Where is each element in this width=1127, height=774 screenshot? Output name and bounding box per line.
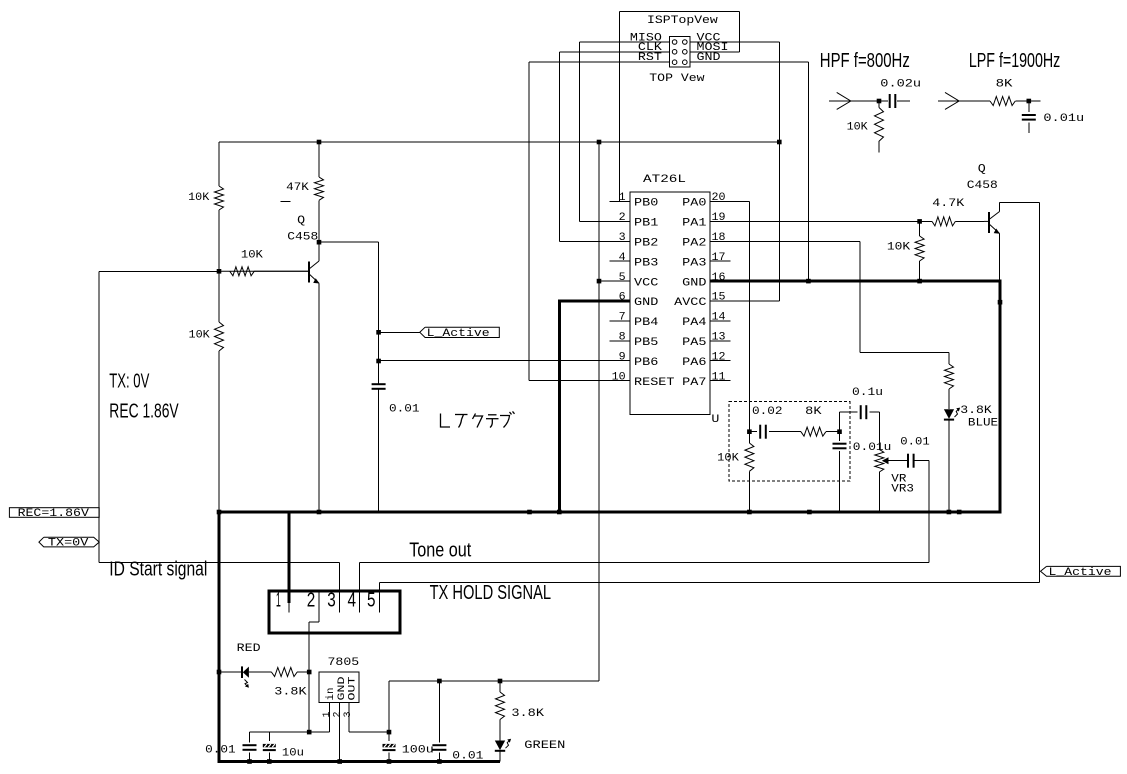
- wire VCC pin5 stub: [599, 280, 630, 282]
- VR3 wiper arrow: [882, 457, 889, 464]
- svg-text:OUT: OUT: [348, 677, 359, 701]
- resistor 10K mid-left: [215, 322, 224, 351]
- svg-text:GND: GND: [337, 677, 348, 701]
- net tag REC=1.86V: [9, 508, 99, 520]
- wire 7805 pin1 lead: [329, 703, 331, 733]
- wire connector pin2 stub and bend to 7805 input node: [318, 591, 320, 622]
- wire GND thick pin16 line: [710, 280, 1000, 283]
- svg-text:Q: Q: [297, 215, 305, 227]
- pin 8 (PB5): [609, 340, 629, 342]
- svg-text:HPF f=800Hz: HPF f=800Hz: [820, 50, 910, 72]
- svg-text:L_Active: L_Active: [1049, 567, 1112, 579]
- resistor 10K base (horizontal): [230, 267, 254, 276]
- wire BLUE led branch x=949: [948, 352, 950, 364]
- net tag TX=0V: [39, 537, 99, 549]
- wire 47K bottom tick: [280, 201, 290, 203]
- svg-text:GND: GND: [634, 297, 659, 309]
- svg-text:0.02: 0.02: [752, 406, 783, 418]
- svg-text:TX HOLD SIGNAL: TX HOLD SIGNAL: [430, 582, 552, 604]
- connector CN1 5-pin box: [269, 591, 400, 633]
- dashed box active filter: [729, 402, 850, 481]
- svg-text:4: 4: [348, 590, 357, 612]
- svg-text:PB0: PB0: [634, 198, 658, 210]
- svg-text:RED: RED: [237, 643, 261, 655]
- svg-text:RST: RST: [638, 52, 662, 64]
- wire RED led node from GND rail: [219, 671, 241, 673]
- svg-text:0.01: 0.01: [389, 403, 420, 415]
- svg-text:10K: 10K: [847, 122, 869, 134]
- wire 7805 input node line: [250, 731, 330, 733]
- wire 0.1u to VR top: [869, 411, 879, 413]
- wire ISP RST to RESET pin10: [529, 61, 669, 63]
- capacitor 0.02u HPF (horizontal): [889, 94, 891, 108]
- svg-text:13: 13: [712, 332, 726, 344]
- resistor 47K: [315, 177, 324, 200]
- pin 7 (PB4): [609, 320, 629, 322]
- svg-text:PB6: PB6: [634, 357, 658, 369]
- wire VCC riser x=599 (7805 out to VCC pin5 and bus): [598, 142, 600, 681]
- wire 3.8K GREEN branch: [499, 681, 501, 692]
- capacitor 0.01 at 7805 input: [243, 744, 257, 746]
- svg-text:PA7: PA7: [682, 377, 706, 389]
- svg-text:2: 2: [307, 590, 316, 612]
- ISP pin circles: [672, 40, 687, 65]
- pin 2 (PB1): [609, 220, 629, 222]
- resistor 3.8K RED (horizontal): [271, 668, 297, 677]
- connector ISP pin block: [670, 37, 690, 68]
- pin 16 (GND): [710, 280, 730, 282]
- svg-text:6: 6: [619, 292, 626, 304]
- wire 7805 pin2 lead to bottom bus: [339, 703, 341, 762]
- svg-text:1: 1: [619, 192, 626, 204]
- wire PB6 to cap branch: [379, 360, 630, 362]
- svg-text:12: 12: [712, 351, 726, 363]
- svg-text:2: 2: [619, 212, 626, 224]
- resistor 8K dashed filter (horizontal): [801, 427, 826, 436]
- pin 15 (AVCC): [710, 300, 730, 302]
- wire connector pin1 stub: [288, 591, 290, 612]
- svg-text:10K: 10K: [241, 249, 263, 261]
- svg-text:RESET: RESET: [634, 377, 675, 389]
- svg-text:ISPTopVew: ISPTopVew: [647, 15, 718, 27]
- svg-text:Tone out: Tone out: [409, 540, 471, 562]
- svg-text:VR3: VR3: [891, 483, 914, 495]
- capacitor 0.01 at 7805 output: [432, 744, 446, 746]
- svg-text:PA5: PA5: [682, 337, 706, 349]
- svg-text:TX=0V: TX=0V: [48, 538, 89, 550]
- wire RED led to 3.8K: [249, 671, 271, 673]
- svg-text:PB1: PB1: [634, 218, 659, 230]
- svg-text:2: 2: [333, 711, 344, 717]
- resistor 10K upper-left: [215, 186, 224, 210]
- svg-text:TOP Vew: TOP Vew: [649, 73, 705, 85]
- wire 47K branch x=319: [318, 142, 320, 177]
- LED RED: [242, 666, 249, 687]
- svg-text:GND: GND: [682, 277, 707, 289]
- net tag L_Active right: [1041, 566, 1121, 578]
- svg-text:47K: 47K: [286, 182, 309, 194]
- wire Tone out riser x=929: [928, 461, 930, 563]
- svg-text:20: 20: [712, 192, 726, 204]
- wire 10K pulldown at Q2 base: [919, 221, 921, 236]
- resistor 10K dashed filter: [745, 443, 754, 471]
- svg-text:9: 9: [619, 351, 626, 363]
- svg-text:C458: C458: [287, 232, 318, 244]
- svg-text:3: 3: [619, 232, 626, 244]
- wire 0.01 output cap leads: [438, 681, 440, 743]
- pin 9 (PB6): [609, 360, 629, 362]
- svg-text:in: in: [325, 688, 337, 701]
- svg-text:TX: 0V: TX: 0V: [109, 370, 149, 392]
- svg-text:8K: 8K: [996, 78, 1013, 90]
- wire L_Active stub: [379, 331, 420, 333]
- pin 4 (PB3): [609, 260, 629, 262]
- svg-text:GND: GND: [697, 52, 721, 64]
- wire TX HOLD SIGNAL line to connector pin5: [379, 581, 1039, 583]
- wire 0.01 input cap to bottom bus: [249, 752, 251, 761]
- svg-text:3.8K: 3.8K: [511, 708, 544, 720]
- wire 7805 pin3 lead to 5V node: [348, 703, 350, 733]
- svg-text:VCC: VCC: [634, 277, 659, 289]
- svg-text:AVCC: AVCC: [674, 297, 707, 309]
- svg-text:16: 16: [712, 272, 726, 284]
- resistor 3.8K BLUE: [945, 364, 954, 389]
- pin 19 (PA1): [710, 220, 730, 222]
- wire 5V rail: [389, 680, 599, 682]
- op-amp U1 AT26L body: [630, 192, 710, 414]
- LED BLUE: [944, 408, 960, 420]
- svg-text:15: 15: [712, 292, 726, 304]
- svg-text:4: 4: [619, 252, 626, 264]
- svg-text:Q: Q: [978, 164, 986, 176]
- svg-text:ID Start signal: ID Start signal: [109, 559, 207, 581]
- wire base node to left rail: [99, 270, 219, 272]
- svg-text:8K: 8K: [805, 406, 822, 418]
- pin 12 (PA6): [710, 360, 730, 362]
- wire HPF input line: [829, 100, 888, 102]
- svg-text:PA2: PA2: [682, 238, 706, 250]
- wire GND thick riser x=559.3: [558, 300, 561, 513]
- svg-text:1: 1: [322, 711, 333, 717]
- svg-text:LPF f=1900Hz: LPF f=1900Hz: [969, 50, 1060, 72]
- svg-text:PA1: PA1: [682, 218, 707, 230]
- wire GND thick left riser x=219: [218, 512, 221, 763]
- svg-text:PA3: PA3: [682, 257, 706, 269]
- svg-text:PB3: PB3: [634, 257, 658, 269]
- svg-text:19: 19: [712, 212, 726, 224]
- label 7805 pin names in GND OUT (rotated): [325, 677, 359, 701]
- wire 100u riser and 5V rail corner: [388, 681, 390, 741]
- capacitor 0.1u (horizontal): [860, 405, 862, 419]
- wire ISP CLK to PB2: [560, 51, 670, 53]
- wire GND thick right riser: [999, 280, 1002, 514]
- svg-text:4.7K: 4.7K: [932, 198, 964, 210]
- svg-text:AT26L: AT26L: [643, 174, 686, 186]
- wire LPF 0.01u shunt: [1028, 101, 1030, 112]
- pin 20 (PA0): [710, 201, 730, 203]
- transistor Q1 C458 (NPN): [219, 242, 320, 283]
- resistor VR3 potentiometer body: [875, 449, 884, 472]
- wire ISP MOSI loop: [690, 51, 740, 53]
- wire ISP MISO to PB1: [580, 41, 670, 43]
- resistor 10K at Q2 base: [915, 236, 924, 261]
- wire PA0 pin20 to filter branch x=749.4: [710, 201, 750, 203]
- pin 5 (VCC): [609, 280, 629, 282]
- svg-text:0.1u: 0.1u: [852, 387, 883, 399]
- svg-text:8: 8: [619, 332, 626, 344]
- svg-text:GREEN: GREEN: [524, 740, 565, 752]
- capacitor 0.01u LPF shunt: [1022, 114, 1036, 116]
- wire GND thick bus: [218, 511, 1002, 514]
- net tag L_Active left: [420, 327, 500, 340]
- connector pin stubs 3,4 inside box: [339, 591, 359, 612]
- resistor 3.8K GREEN: [496, 692, 505, 720]
- pin 1 (PB0): [609, 201, 629, 203]
- wire HPF 10K shunt: [878, 101, 880, 108]
- capacitor 10u polarized: [263, 744, 276, 747]
- svg-text:BLUE: BLUE: [968, 418, 999, 430]
- svg-text:18: 18: [712, 232, 726, 244]
- svg-text:0.01: 0.01: [205, 745, 236, 757]
- svg-text:10: 10: [612, 371, 626, 383]
- LED GREEN: [495, 739, 511, 751]
- resistor 8K LPF (horizontal): [990, 97, 1015, 106]
- pin 14 (PA4): [710, 320, 730, 322]
- svg-text:14: 14: [712, 312, 726, 324]
- svg-text:11: 11: [712, 371, 726, 383]
- svg-text:10K: 10K: [188, 192, 210, 204]
- svg-text:PA0: PA0: [682, 198, 706, 210]
- svg-text:10K: 10K: [717, 453, 739, 465]
- pin 3 (PB2): [609, 240, 629, 242]
- svg-text:100u: 100u: [402, 744, 434, 756]
- capacitor 0.01u dashed filter shunt: [833, 443, 847, 445]
- svg-text:0.01: 0.01: [452, 751, 484, 763]
- wire Q1 emitter down to GND bus: [318, 283, 320, 512]
- pin 17 (PA3): [710, 260, 730, 262]
- resistor 4.7K (horizontal): [932, 217, 955, 226]
- wire VCC left riser x=219 (through R1,R3): [218, 142, 220, 186]
- pin 6 (GND): [609, 300, 629, 302]
- wire ISP VCC to bus and AVCC: [690, 41, 779, 43]
- wire 10u cap leads: [268, 732, 270, 741]
- wire 0.01u shunt under filter node: [839, 432, 841, 442]
- resistor 10K HPF shunt: [875, 108, 884, 142]
- pin 11 (PA7): [710, 380, 730, 382]
- wire collector node to cap branch: [319, 241, 379, 243]
- svg-text:1: 1: [276, 590, 281, 612]
- wire 3.8K to pin2 node: [297, 671, 309, 673]
- svg-text:PA4: PA4: [682, 317, 707, 329]
- svg-text:10K: 10K: [887, 242, 911, 254]
- wire left rail down to ID line: [98, 271, 100, 562]
- pin 13 (PA5): [710, 340, 730, 342]
- HPF input arrow: [837, 92, 851, 109]
- wire AVCC pin15 stub: [710, 300, 779, 302]
- svg-text:3.8K: 3.8K: [960, 405, 992, 417]
- regulator U2 7805 body: [319, 672, 359, 702]
- wire VR wiper to 0.01 coupling cap: [888, 460, 908, 462]
- svg-text:0.01: 0.01: [900, 437, 930, 449]
- wire VR bottom to GND bus: [878, 472, 880, 512]
- svg-text:3: 3: [327, 590, 336, 612]
- svg-text:3: 3: [343, 711, 354, 717]
- svg-text:10u: 10u: [282, 748, 304, 760]
- capacitor 100u polarized: [383, 744, 396, 747]
- transistor Q2 C458 (NPN): [984, 202, 1000, 233]
- svg-text:7805: 7805: [328, 657, 360, 669]
- svg-text:7: 7: [619, 312, 626, 324]
- wire cap branch x=378.6 (to L_Active node and 0.01 cap): [378, 242, 380, 384]
- svg-text:C458: C458: [967, 180, 998, 192]
- wire PA2 pin18 to BLUE led branch: [710, 240, 860, 242]
- wire ID Start signal line to connector pin3: [99, 561, 339, 563]
- wire Q2 emitter: [999, 234, 1001, 282]
- label L-akutebu (Japanese): [441, 411, 515, 427]
- capacitor 0.01 under Q1 branch: [372, 383, 386, 385]
- svg-text:3.8K: 3.8K: [274, 687, 307, 699]
- capacitor 0.02 dashed filter (horizontal): [759, 425, 761, 439]
- wire GND thick bottom bus: [218, 760, 501, 763]
- svg-text:0.02u: 0.02u: [880, 78, 921, 90]
- svg-text:PA6: PA6: [682, 357, 706, 369]
- svg-text:5: 5: [367, 590, 376, 612]
- wire GND thick connector pin1 drop: [288, 512, 291, 603]
- svg-text:REC=1.86V: REC=1.86V: [18, 508, 90, 520]
- wire ISP GND down to GND net: [690, 61, 809, 63]
- wire filter node up to 0.1u: [839, 412, 841, 432]
- pin 10 (RESET): [609, 380, 629, 382]
- svg-text:17: 17: [712, 252, 726, 264]
- svg-text:REC 1.86V: REC 1.86V: [109, 401, 179, 423]
- svg-text:PB5: PB5: [634, 337, 658, 349]
- label 7805 pin numbers 1 2 3 (rotated): [322, 711, 354, 717]
- LPF input arrow: [945, 92, 959, 109]
- wire Tone out line to connector pin4: [360, 561, 929, 563]
- svg-text:5: 5: [619, 272, 626, 284]
- svg-text:U: U: [711, 414, 719, 426]
- svg-text:PB4: PB4: [634, 317, 659, 329]
- svg-text:PB2: PB2: [634, 238, 658, 250]
- svg-text:0.01u: 0.01u: [853, 442, 892, 454]
- wire Q2 collector loop / TX HOLD riser: [1000, 201, 1040, 203]
- wire VCC top bus: [219, 141, 779, 143]
- svg-text:10K: 10K: [189, 330, 211, 342]
- svg-text:L_Active: L_Active: [427, 328, 490, 340]
- wire GND thick pin6 line: [558, 300, 630, 303]
- pin 18 (PA2): [710, 240, 730, 242]
- capacitor 0.01 VR coupling (horizontal): [907, 454, 909, 468]
- wire LPF input line: [938, 100, 990, 102]
- wire 0.02 cap to 8K in dashed filter: [749, 431, 757, 433]
- svg-text:0.01u: 0.01u: [1043, 113, 1084, 125]
- wire PA1 pin19 to Q2 base: [710, 220, 932, 222]
